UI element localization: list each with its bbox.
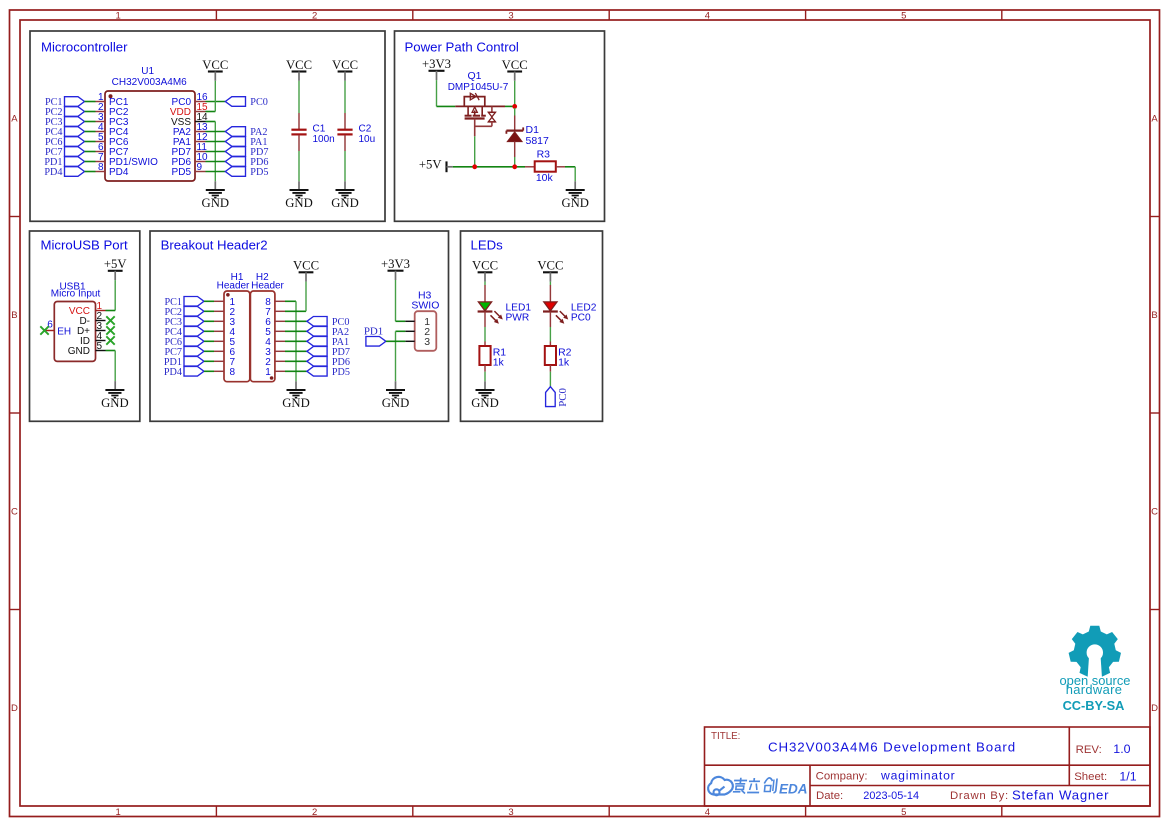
power flag +5V (power path) [419,158,453,173]
svg-text:2023-05-14: 2023-05-14 [863,790,919,802]
svg-text:R3: R3 [537,149,551,161]
svg-text:Q1: Q1 [467,70,481,82]
svg-text:GND: GND [282,396,310,410]
title block sheet row divider [810,785,1150,787]
svg-text:VCC: VCC [332,58,358,72]
net port node PC3 (H1) [164,317,204,328]
wire PC2 to H1 pin 2 [204,310,214,312]
USB1 pin 5 stub [96,350,106,352]
svg-text:3: 3 [424,336,430,348]
power flag +3V3 (H3) [381,257,410,280]
U1 pin 14 stub [195,121,206,123]
net port node PC3 (U1 left) [45,117,85,128]
gray stub to ground (R3) [574,181,576,190]
svg-text:U1: U1 [141,66,154,77]
wire PD4 to U1 pin 8 [85,171,96,173]
H2 pin 6 stub [275,320,285,322]
wire H2 pin4 to PA1 [285,340,307,342]
wire U1 pin10 to PD6 port [206,161,226,163]
wire PC3 to U1 pin 3 [85,121,96,123]
wire +3V3 down [436,80,438,106]
wire R3 to ground corner [565,166,575,168]
svg-text:PD5: PD5 [250,167,268,178]
title block outline [705,727,1151,806]
no-connect ID [106,336,114,344]
svg-text:1/1: 1/1 [1119,770,1136,784]
wire PC7 to H1 pin 6 [204,350,214,352]
H2 pin 5 stub [275,330,285,332]
H1 pin 6 stub [214,350,224,352]
ground (R1) [471,390,499,410]
U1 pin 3 stub [96,121,106,123]
wire VCC to LED1 [484,282,486,286]
junction +5V/Q1 gate [472,164,477,169]
U1 pin 16 stub [195,101,206,103]
wire H3 pin2 left [396,330,406,332]
wire U1 pin11 to PD7 port [206,151,226,153]
frame column ticks top [216,10,1001,20]
power flag VCC (C1) [286,58,312,81]
svg-text:6: 6 [47,319,53,330]
svg-text:B: B [11,310,17,321]
svg-text:CH32V003A4M6: CH32V003A4M6 [112,77,187,88]
svg-text:PD5: PD5 [172,167,192,178]
net port node PD5 (H2) [307,367,350,378]
ground (R3) [561,190,589,210]
H1 pin 4 stub [214,330,224,332]
junction +5V/D1 [512,164,517,169]
wire PC6 to H1 pin 5 [204,340,214,342]
wire VCC down to node [514,81,516,105]
H1 pin-1 mark dot [226,293,230,297]
svg-text:5817: 5817 [526,135,550,147]
H3 pin 3 stub [405,340,414,342]
svg-text:3: 3 [508,11,513,22]
USB1 pin 4 stub [96,340,106,342]
EDA tool logo CJK characters [733,778,777,794]
gray stub to ground (C1) [298,181,300,190]
net port node PA1 (H2) [307,337,349,348]
header H3 body [415,311,437,351]
svg-text:1: 1 [116,807,121,818]
svg-text:Breakout Header2: Breakout Header2 [161,238,268,253]
wire PC4 to U1 pin 4 [85,131,96,133]
gray stub to ground (U1) [214,181,216,190]
net port node PD6 (H2) [307,357,350,368]
H2 pin 7 stub [275,310,285,312]
ground (C2) [331,190,359,210]
power flag +3V3 (power path) [422,57,451,80]
svg-text:CC-BY-SA: CC-BY-SA [1063,698,1125,713]
svg-text:VCC: VCC [502,58,528,72]
wire PC7 to U1 pin 6 [85,151,96,153]
svg-text:VCC: VCC [537,259,563,273]
frame row ticks right [1150,217,1160,610]
H3 pin 2 stub [405,330,414,332]
svg-text:C1: C1 [313,123,326,134]
svg-text:SWIO: SWIO [411,300,439,312]
wire down to ground (H3) [395,331,397,381]
svg-text:+5V: +5V [104,257,127,271]
svg-text:TITLE:: TITLE: [711,731,740,742]
svg-text:PC0: PC0 [250,97,268,108]
connector USB1 body [54,302,95,362]
U1 pin 13 stub [195,131,206,133]
ground (USB1) [101,390,129,410]
svg-text:CH32V003A4M6 Development Board: CH32V003A4M6 Development Board [768,740,1016,755]
resistor R3 [525,149,565,185]
net port node PD1 (U1 left) [44,157,84,168]
wire +3V3 to Q1 [437,105,456,107]
wire LED2 to R2 [549,327,551,342]
svg-text:10u: 10u [359,134,376,145]
wire PC6 to U1 pin 5 [85,141,96,143]
U1 pin-1 mark dot [109,94,113,98]
svg-text:8: 8 [98,162,104,173]
diode D1 [506,116,523,158]
svg-text:GND: GND [471,396,499,410]
no-connect EH [40,326,48,334]
svg-text:A: A [1151,114,1158,125]
net port node PD4 (H1) [164,367,204,378]
net port node PC7 (U1 left) [45,147,85,158]
svg-text:C: C [1151,507,1158,518]
power flag VCC (power path) [502,58,528,81]
net port node PD7 (U1 right) [225,147,268,158]
wire H2 pin2 to PD6 [285,360,307,362]
no-connect D- [106,316,114,324]
wire PC2 to U1 pin 2 [85,111,96,113]
H1 pin 3 stub [214,320,224,322]
LED LED2 [543,285,568,327]
svg-text:GND: GND [285,196,313,210]
svg-text:+5V: +5V [419,158,442,172]
svg-text:PD4: PD4 [164,367,182,378]
section box MicroUSB Port [30,231,140,421]
wire D1 cathode to VCC node [514,108,516,116]
net port node PD5 (U1 right) [225,167,268,178]
open source hardware logo gear [1069,626,1121,680]
gray stub to ground (H3) [395,381,397,390]
frame row letters right [1151,114,1158,715]
svg-text:GND: GND [202,196,230,210]
header H1 body [224,291,250,382]
USB1 pin 6 EH stub [45,330,55,332]
wire H2 pin6 to PC0 [285,320,307,322]
svg-text:REV:: REV: [1076,744,1102,756]
svg-text:3: 3 [508,807,513,818]
gray stub to ground (USB1) [114,381,116,390]
wire VCC to C2 [344,81,346,113]
svg-text:+3V3: +3V3 [381,257,410,271]
net port PD1 (H3) [364,326,386,347]
power flag VCC (LED1) [472,259,498,282]
U1 pin 5 stub [96,141,106,143]
section box Breakout Header2 [150,231,449,421]
svg-text:GND: GND [382,396,410,410]
wire to H3 pin1 [396,320,406,322]
svg-text:Stefan Wagner: Stefan Wagner [1012,787,1109,802]
svg-text:100n: 100n [313,134,335,145]
U1 pin 4 stub [96,131,106,133]
svg-text:1k: 1k [493,356,505,368]
wire PD1 to U1 pin 7 [85,161,96,163]
wire C2 to ground [344,151,346,181]
svg-text:Micro Input: Micro Input [51,289,101,300]
svg-text:Sheet:: Sheet: [1074,771,1107,783]
net port node PC2 (U1 left) [45,107,85,118]
title block rev column divider [1068,727,1070,786]
wire U1 pin12 to PA1 port [206,141,226,143]
net port node PD1 (H1) [164,357,204,368]
U1 pin 15 stub [195,111,206,113]
svg-text:GND: GND [101,396,129,410]
svg-text:1: 1 [116,11,121,22]
svg-text:B: B [1151,310,1157,321]
svg-text:Drawn By:: Drawn By: [950,790,1009,802]
H2 pin 8 stub [275,300,285,302]
gray stub to ground (H2) [295,381,297,390]
frame column numbers top [116,11,907,22]
wire H2 pin8 to ground rail [285,300,296,302]
net port node PC4 (U1 left) [45,127,85,138]
wire +5V down to USB1 VCC [114,280,116,310]
gray stub to ground (C2) [344,181,346,190]
H1 pin 2 stub [214,310,224,312]
wire U1 pin14 VSS right [206,121,216,123]
wire down to ground (USB1) [114,351,116,382]
svg-text:+3V3: +3V3 [422,57,451,71]
svg-text:10k: 10k [536,172,554,184]
resistor R2 [545,342,572,372]
capacitor C1 [291,113,334,151]
net port node PA1 (U1 right) [225,137,267,148]
EDA tool logo cloud [708,777,733,795]
wire PC4 to H1 pin 4 [204,330,214,332]
svg-text:C2: C2 [359,123,372,134]
U1 pin 7 stub [96,161,106,163]
net port node PC7 (H1) [164,347,204,358]
svg-text:Microcontroller: Microcontroller [41,39,128,54]
U1 pin 2 stub [96,111,106,113]
svg-text:D: D [11,703,18,714]
frame column ticks bottom [216,806,1001,817]
wire C1 to ground [298,151,300,181]
svg-text:Date:: Date: [816,790,843,802]
net port node PC6 (H1) [164,337,204,348]
svg-text:1: 1 [265,367,271,378]
power flag VCC (LED2) [537,259,563,282]
svg-text:PD5: PD5 [332,367,350,378]
gray stub to ground (R1) [484,381,486,390]
wire USB1 pin1 [106,310,116,312]
U1 pin 8 stub [96,171,106,173]
U1 pin 10 stub [195,161,206,163]
svg-text:PC0: PC0 [571,312,591,323]
wire U1 pin9 to PD5 port [206,171,226,173]
svg-text:EDA: EDA [779,781,808,796]
svg-text:5: 5 [901,807,906,818]
net port node PC1 (H1) [164,297,204,308]
net port node PA2 (U1 right) [225,127,267,138]
svg-text:PD1: PD1 [364,326,383,338]
svg-text:8: 8 [230,367,236,378]
wire PC1 to H1 pin 1 [204,300,214,302]
title block row divider [705,764,1151,766]
title block logo cell divider [809,765,811,806]
header H2 body [250,291,275,382]
USB1 pin 3 stub [96,330,106,332]
wire VCC to LED2 [549,282,551,286]
svg-text:hardware: hardware [1066,682,1123,697]
junction VCC/Q1/D1 [512,104,517,109]
wire USB1 GND pin [106,350,116,352]
svg-text:4: 4 [705,807,710,818]
svg-text:Power Path Control: Power Path Control [405,39,519,54]
svg-text:VCC: VCC [202,58,228,72]
wire U1 pin16 to PC0 port [206,101,226,103]
wire Q1 gate down to +5V rail [474,136,476,167]
wire D1 anode to +5V rail [514,157,516,165]
svg-text:Company:: Company: [816,771,868,783]
net port node PC4 (H1) [164,327,204,338]
frame row letters left [11,114,18,715]
svg-text:VCC: VCC [286,58,312,72]
wire LED1 to R1 [484,327,486,342]
wire VCC down to VDD [214,81,216,112]
frame column numbers bottom [116,807,907,818]
section box Microcontroller [30,31,385,221]
no-connect D+ [106,326,114,334]
power flag VCC (U1) [202,58,228,81]
section box Power Path Control [395,31,605,221]
svg-text:2: 2 [312,11,317,22]
wire H2 pin7 to VCC [285,310,306,312]
H2 pin 4 stub [275,340,285,342]
svg-text:GND: GND [561,196,589,210]
U1 pin 1 stub [96,101,106,103]
H1 pin 8 stub [214,370,224,372]
wire U1 pin15 VDD to VCC rail [206,111,216,113]
svg-text:PC0: PC0 [557,387,569,406]
wire R1 to ground [484,372,486,382]
svg-text:A: A [11,114,18,125]
MCU U1 body [105,91,195,181]
svg-text:PWR: PWR [506,312,530,323]
svg-text:1.0: 1.0 [1113,742,1130,756]
net port node PC0 (H2) [307,317,350,328]
wire PC1 to U1 pin 1 [85,101,96,103]
H1 pin 7 stub [214,360,224,362]
wire H2 pin1 to PD5 [285,370,307,372]
net port node PD7 (H2) [307,347,350,358]
net port node PD4 (U1 left) [44,167,84,178]
svg-text:PD4: PD4 [109,167,129,178]
U1 pin 9 stub [195,171,206,173]
resistor R1 [479,342,506,372]
net port node PC6 (U1 left) [45,137,85,148]
wire +5V rail [453,166,525,168]
H2 pin 2 stub [275,360,285,362]
frame row ticks left [10,217,21,610]
net port node PC2 (H1) [164,307,204,318]
svg-text:DMP1045U-7: DMP1045U-7 [448,82,509,93]
net port node PC0 (U1 right) [225,97,268,108]
H2 pin 1 stub [275,370,285,372]
svg-text:LEDs: LEDs [471,238,504,253]
USB1 pin 2 stub [96,320,106,322]
wire VSS down to ground [214,122,216,182]
net port node PD6 (U1 right) [225,157,268,168]
wire VCC down to H2 pin7 [305,282,307,312]
svg-text:1k: 1k [558,356,570,368]
svg-text:PD4: PD4 [44,167,62,178]
H2 pin-1 mark dot [270,376,274,380]
USB1 pin 1 stub [96,310,106,312]
svg-text:GND: GND [68,346,90,357]
section box LEDs [461,231,603,421]
svg-text:Header: Header [251,281,284,292]
LED LED1 [478,285,503,327]
capacitor C2 [337,113,375,151]
svg-text:wagiminator: wagiminator [880,769,956,783]
ground (C1) [285,190,313,210]
svg-text:EH: EH [57,326,71,337]
wire R2 to PC0 port [549,372,551,387]
net port PC0 (LED2) [546,387,569,407]
svg-text:C: C [11,507,18,518]
svg-text:VCC: VCC [293,259,319,273]
power flag VCC (H2) [293,259,319,282]
H1 pin 1 stub [214,300,224,302]
wire PD4 to H1 pin 8 [204,370,214,372]
svg-text:D: D [1151,703,1158,714]
svg-text:2: 2 [312,807,317,818]
svg-text:5: 5 [901,11,906,22]
H3 pin 1 stub [405,320,414,322]
svg-text:4: 4 [705,11,710,22]
power flag +5V (USB) [104,257,127,280]
wire H2 pin3 to PD7 [285,350,307,352]
wire Q1 to VCC node [505,105,513,107]
U1 pin 12 stub [195,141,206,143]
svg-text:GND: GND [331,196,359,210]
H1 pin 5 stub [214,340,224,342]
wire H2 pin5 to PA2 [285,330,307,332]
transistor Q1 [455,93,505,136]
ground (U1) [202,190,230,210]
open source hardware logo text [1060,673,1131,713]
svg-text:MicroUSB Port: MicroUSB Port [41,238,129,253]
U1 pin 11 stub [195,151,206,153]
wire +3V3 down to H3 pin1 [395,280,397,321]
power flag VCC (C2) [332,58,358,81]
net port node PA2 (H2) [307,327,349,338]
svg-text:Header: Header [217,281,250,292]
U1 pin 6 stub [96,151,106,153]
ground (H2) [282,390,310,410]
ground (H3) [382,390,410,410]
wire VCC to C1 [298,81,300,113]
wire PD1 to H3 pin3 [386,340,405,342]
wire PC3 to H1 pin 3 [204,320,214,322]
H2 pin 3 stub [275,350,285,352]
wire PD1 to H1 pin 7 [204,360,214,362]
net port node PC1 (U1 left) [45,97,85,108]
wire U1 pin13 to PA2 port [206,131,226,133]
svg-text:VCC: VCC [472,259,498,273]
